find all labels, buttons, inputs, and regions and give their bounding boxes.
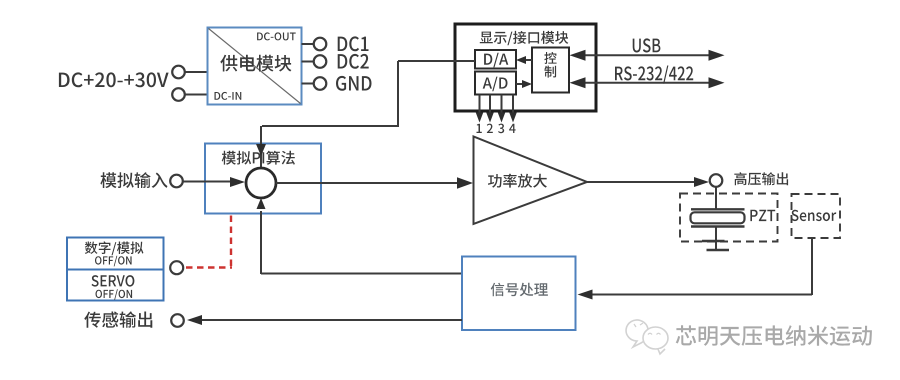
wire: amplifier output xyxy=(587,181,695,183)
label SERVO xyxy=(92,275,135,287)
node: DC1 terminal xyxy=(314,38,327,51)
pin 1 line xyxy=(479,95,481,117)
controller box 控制 xyxy=(532,48,569,93)
wire: PZT to ground xyxy=(715,227,717,251)
RS-232 arrow right xyxy=(709,77,725,88)
wire: HV to PZT xyxy=(715,187,717,210)
wire: GND stub xyxy=(302,83,314,85)
label 显示/接口模块 xyxy=(480,31,569,45)
RS-232 arrow left xyxy=(570,77,586,88)
wire: analog input xyxy=(183,181,231,183)
pin 3 line xyxy=(501,95,503,117)
signal processing box 信号处理 xyxy=(462,257,576,331)
power amplifier triangle 功率放大 xyxy=(474,137,588,225)
wire: summing junction to amplifier xyxy=(276,182,459,184)
node: HV output terminal xyxy=(710,174,723,187)
USB arrow right xyxy=(709,50,725,61)
ground bar 2 xyxy=(707,249,730,251)
wire: feedback horizontal from signal processing xyxy=(261,273,462,275)
pin 4 line xyxy=(512,95,514,117)
node: sensor output terminal xyxy=(171,314,184,327)
D/A converter box U-DA xyxy=(475,50,516,69)
arrow into sensor output terminal xyxy=(187,315,202,325)
label Sensor xyxy=(791,210,836,221)
Sensor dashed box xyxy=(792,194,841,238)
summing junction circle xyxy=(246,168,276,198)
wire: drop into PI module xyxy=(260,126,262,168)
label DC+20-+30V xyxy=(59,72,169,87)
label A/D xyxy=(483,77,508,92)
PZT dashed box xyxy=(680,194,778,242)
USB bus line xyxy=(584,54,710,56)
label USB xyxy=(633,38,661,52)
arrow into HV output xyxy=(694,177,709,187)
label 模拟PI算法 xyxy=(222,151,295,165)
node: DC2 terminal xyxy=(314,55,327,68)
PZT body xyxy=(691,212,745,223)
arrow into amplifier xyxy=(457,177,473,189)
label DC1 xyxy=(338,36,369,51)
label OFF/ON 1 xyxy=(95,256,132,267)
pin 3 arrow xyxy=(498,113,506,123)
label DC-OUT xyxy=(257,32,296,40)
label DC-IN xyxy=(215,92,242,100)
pin 4 arrow xyxy=(509,113,517,123)
wire: DC input lower stub xyxy=(185,94,208,96)
display/interface module box 显示/接口模块 xyxy=(455,24,596,111)
wire: feed to summing junction horizontal xyxy=(262,125,399,127)
digital/analog switch box 数字/模拟 xyxy=(67,238,164,270)
node: switch terminal xyxy=(170,261,183,274)
PZT top electrode xyxy=(691,208,745,210)
wire: sensor down xyxy=(811,238,813,295)
label 高压输出 xyxy=(734,172,788,185)
wire: D/A feed horizontal xyxy=(398,60,475,62)
arrow into controller xyxy=(522,80,532,88)
power supply module diagonal xyxy=(209,29,301,104)
pin 2 line xyxy=(489,95,491,117)
label 模拟输入 xyxy=(100,172,167,188)
label PZT xyxy=(750,210,775,221)
node: DC input terminal 2 xyxy=(172,88,185,101)
node: DC input terminal 1 xyxy=(172,66,185,79)
red dashed control vertical xyxy=(230,213,232,267)
label OFF/ON 2 xyxy=(96,289,133,300)
arrow into summing junction xyxy=(230,177,245,187)
label D/A xyxy=(484,53,508,68)
label 功率放大 xyxy=(488,174,547,188)
pin 1 arrow xyxy=(476,113,484,123)
wire: A/D to controller xyxy=(516,83,527,85)
RS-232/422 bus line xyxy=(584,82,710,84)
label GND xyxy=(336,76,372,91)
logo text 芯明天压电纳米运动 xyxy=(676,325,872,346)
label 信号处理 xyxy=(491,283,548,297)
node: GND terminal xyxy=(314,77,327,90)
PZT bottom electrode xyxy=(691,225,745,227)
logo icon xyxy=(626,320,668,354)
node: analog input terminal xyxy=(170,175,183,188)
label DC2 xyxy=(338,54,369,69)
label RS-232/422 xyxy=(615,66,693,84)
wire: feedback vertical into summing junction xyxy=(260,211,262,274)
ground bar 1 xyxy=(702,240,725,242)
wire: DC2 stub xyxy=(302,61,314,63)
A/D converter box U-AD xyxy=(475,72,516,95)
pin 2 arrow xyxy=(486,113,494,123)
red dashed control horizontal xyxy=(186,266,232,268)
USB arrow left xyxy=(570,50,586,61)
wire: sensor to signal processing xyxy=(590,294,812,296)
SERVO switch box xyxy=(67,270,164,301)
wire: DC1 stub xyxy=(302,43,314,45)
analog PI module box 模拟PI算法 xyxy=(205,144,321,214)
label 传感输出 xyxy=(84,311,152,327)
label 控制 vertical xyxy=(544,52,556,64)
wire: sensor output line xyxy=(200,319,462,321)
arrow into signal processing xyxy=(578,290,593,300)
wire: controller to D/A xyxy=(521,59,532,61)
wire: D/A feed vertical xyxy=(397,61,399,127)
power supply module box 供电模块 xyxy=(208,28,302,105)
label 数字/模拟 xyxy=(85,241,144,255)
arrow into D/A xyxy=(516,56,526,64)
wire: DC input upper stub xyxy=(185,71,208,73)
arrow up into summing junction xyxy=(257,198,266,209)
label 供电模块 xyxy=(220,55,291,72)
arrow down into summing junction xyxy=(256,144,266,156)
label pin numbers 1 2 3 4 xyxy=(477,124,482,133)
